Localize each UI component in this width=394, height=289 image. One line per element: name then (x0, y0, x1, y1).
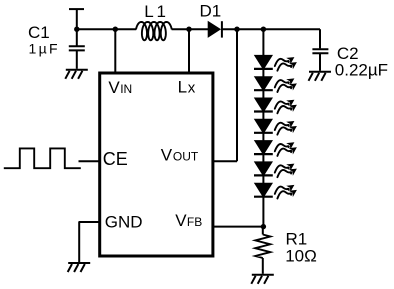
svg-text:10Ω: 10Ω (285, 247, 317, 266)
svg-text:V: V (175, 211, 187, 230)
svg-text:x: x (188, 80, 196, 97)
svg-text:1µF: 1µF (29, 40, 60, 56)
svg-text:FB: FB (187, 215, 202, 229)
svg-text:GND: GND (105, 213, 143, 232)
svg-text:IN: IN (120, 82, 132, 96)
svg-text:R1: R1 (286, 229, 308, 248)
svg-text:OUT: OUT (173, 149, 199, 163)
svg-text:L1: L1 (144, 2, 169, 21)
svg-text:V: V (161, 145, 173, 164)
svg-text:0.22µF: 0.22µF (335, 61, 388, 80)
svg-text:L: L (178, 78, 187, 97)
svg-text:CE: CE (103, 149, 128, 169)
svg-text:V: V (108, 78, 120, 97)
svg-text:C1: C1 (28, 23, 50, 42)
svg-text:D1: D1 (200, 2, 222, 21)
